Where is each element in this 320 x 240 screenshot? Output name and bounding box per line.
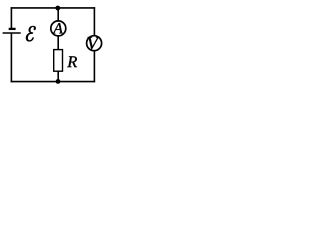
ammeter label A [52, 23, 62, 33]
battery ε long thin plate [3, 32, 21, 34]
wire top rail [11, 7, 96, 9]
voltmeter label V [88, 37, 100, 49]
battery label ε (script E EMF symbol) [26, 26, 36, 41]
ammeter A circle [51, 21, 66, 36]
wire ammeter to resistor [57, 36, 59, 50]
node junction bottom [56, 79, 61, 84]
node junction top [55, 6, 60, 11]
resistor label R [67, 56, 77, 67]
battery ε short thick plate [9, 28, 16, 30]
wire right lower [93, 51, 95, 83]
wire left lower [10, 33, 12, 82]
resistor R body [54, 50, 63, 72]
voltmeter V circle [87, 36, 102, 51]
wire bottom rail [11, 81, 96, 83]
wire right upper [93, 7, 95, 35]
wire resistor to bottom [57, 71, 59, 81]
wire left upper [10, 7, 12, 29]
wire ammeter drop [57, 8, 59, 21]
